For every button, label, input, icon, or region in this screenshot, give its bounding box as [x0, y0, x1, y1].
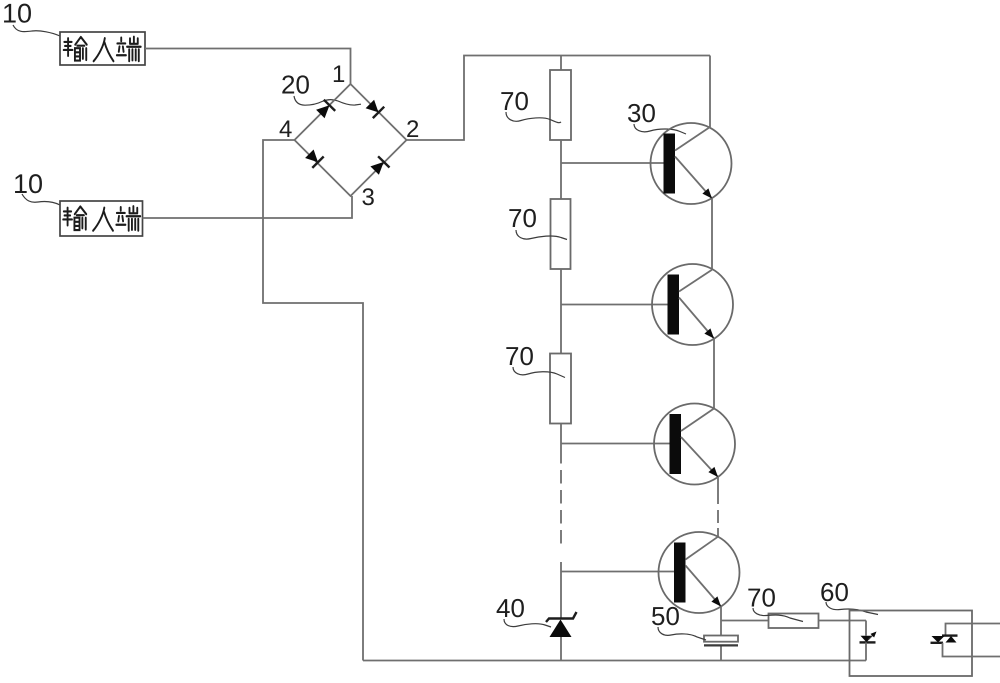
diode D2 (edge 1-2) arrow — [366, 100, 379, 113]
node 3 label — [362, 188, 373, 205]
dashed continuation wire (transistor chain) — [717, 491, 719, 528]
wire node3 to Q3 base — [561, 443, 670, 445]
triac bottom bar — [931, 642, 944, 644]
wire zener to bottom rail — [560, 637, 562, 661]
leader line from 10 to bottom input box — [22, 194, 60, 205]
leader line from 30 to Q1 — [634, 124, 686, 134]
resistor 70 (R4, horizontal) — [769, 614, 819, 629]
wire Q3 emitter down (solid) — [717, 477, 719, 491]
glyphs 输入端 (bottom box) — [63, 206, 140, 230]
diode D1 (edge 4-1) arrow — [316, 105, 329, 118]
opto LED triangle — [861, 636, 873, 643]
wire R3 to node3 — [560, 424, 562, 451]
leader line from 70 to R3 — [513, 367, 565, 378]
label 70 (R3) — [506, 347, 533, 365]
diode D4 (edge 3-2) arrow — [370, 162, 383, 175]
triac top bar — [942, 634, 958, 636]
diode D3 (edge 4-3) arrow — [305, 150, 318, 163]
leader line from 70 to R1 — [506, 112, 561, 123]
wire top rail to resistor chain — [560, 56, 562, 71]
resistor 70 (R3) — [550, 354, 571, 424]
label 70 (R1) — [501, 92, 528, 110]
wire node2 to Q2 base — [561, 304, 668, 306]
leader line from 50 to capacitor — [658, 627, 706, 640]
wire node4 to Q4 base — [561, 571, 674, 573]
resistor 70 (R2) — [551, 199, 571, 269]
opto LED cathode lead to bottom rail — [865, 642, 867, 660]
label 70 (R2) — [509, 209, 536, 227]
diode D3 cathode bar — [312, 157, 323, 168]
triac MT1 wire — [943, 643, 1000, 657]
leader line from 10 to top input box — [13, 25, 60, 36]
label 10 (top input) — [4, 4, 31, 23]
node 1 label — [334, 65, 344, 82]
label 20 — [282, 75, 309, 93]
wire Q1 emitter to Q2 collector — [711, 199, 713, 270]
wire Q4 emitter branch to R4 — [721, 620, 769, 622]
wire Q4 emitter to capacitor — [720, 607, 722, 636]
wire from top input to bridge node 1 — [145, 49, 351, 85]
leader line from 40 to zener — [504, 619, 551, 627]
wire dashed end to Q4 collector — [717, 528, 719, 537]
wire R1 to R2 — [560, 140, 562, 199]
wire capacitor to bottom rail — [720, 647, 722, 661]
opto LED anode lead — [865, 621, 867, 636]
leader line from 60 to optocoupler box — [826, 602, 878, 615]
bottom rail — [363, 660, 866, 662]
glyphs 输入端 (top box) — [64, 37, 141, 61]
transistor 30 (Q1) — [651, 123, 732, 204]
optocoupler 60 box — [850, 611, 973, 677]
diode D1 cathode bar — [324, 100, 335, 111]
label 60 — [821, 583, 848, 601]
wire R2 to R3 — [560, 269, 562, 354]
resistor 70 (R1) — [550, 70, 571, 140]
wire Q1 collector to top rail — [709, 56, 711, 128]
leader line from 70 to R4 — [753, 608, 803, 622]
node 2 label — [407, 120, 418, 137]
wire from bridge node 2 up to top rail — [407, 56, 711, 141]
wire R4 to optocoupler — [819, 620, 867, 622]
transistor 30 (Q3) — [654, 404, 735, 485]
label 70 (R4) — [748, 588, 775, 606]
input terminal 10 (top box) — [60, 32, 145, 65]
zener diode 40 cathode bar — [546, 612, 577, 622]
label 40 — [497, 599, 524, 617]
label 10 (bottom input) — [15, 174, 42, 193]
dashed continuation wire (resistor chain) — [560, 450, 562, 544]
wire from bridge node 4 down-left to bottom rail — [263, 140, 363, 661]
capacitor 50 top plate — [704, 636, 738, 642]
input terminal 10 (bottom box) — [60, 201, 143, 236]
wire Q2 emitter to Q3 collector — [713, 339, 715, 409]
triac MT2 wire — [946, 624, 1000, 636]
leader line from 20 into bridge — [294, 96, 361, 105]
opto LED cathode bar — [860, 641, 876, 643]
wire dashed end to zener — [560, 562, 562, 619]
transistor 30 (Q4) — [659, 532, 740, 613]
triac down triangle — [932, 636, 945, 643]
label 30 — [628, 104, 655, 122]
transistor 30 (Q2) — [652, 264, 733, 345]
node 4 label — [280, 120, 292, 137]
diode D2 cathode bar — [373, 107, 384, 118]
wire from bottom input to bridge node 3 — [143, 196, 353, 218]
label 50 — [652, 607, 679, 625]
wire node1 to Q1 base — [561, 162, 664, 164]
capacitor 50 bottom plate — [704, 644, 738, 646]
opto LED emission arrow — [869, 633, 876, 640]
opto LED emission arrowhead — [871, 632, 877, 638]
triac up triangle — [946, 636, 957, 643]
diode D4 cathode bar — [378, 156, 389, 167]
zener diode 40 triangle — [550, 620, 572, 638]
bridge rectifier 20 diamond — [295, 84, 407, 196]
leader line from 70 to R2 — [516, 230, 567, 240]
